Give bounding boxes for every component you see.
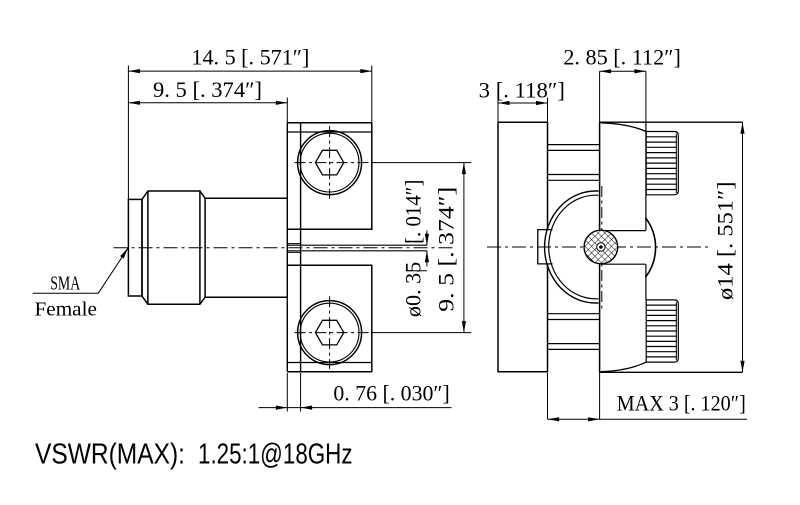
dim phi0.35 arrow line: [426, 231, 428, 267]
nut top edge: [600, 121, 743, 123]
svg-text:VSWR(MAX):: VSWR(MAX):: [35, 439, 185, 471]
dim MAX 3 line: [548, 418, 747, 420]
arrows dim 14.5: [128, 69, 140, 73]
center contact clear middle: [597, 243, 605, 251]
wire: horizontal center line, right view: [487, 246, 711, 248]
insulator nub: [538, 230, 553, 264]
svg-text:9. 5 [. 374″]: 9. 5 [. 374″]: [153, 77, 262, 102]
svg-text:MAX 3 [. 120″]: MAX 3 [. 120″]: [617, 390, 746, 415]
arrow SMA leader: [120, 247, 130, 259]
arrows dim 2.85: [600, 69, 612, 73]
screw S2 vertical center line: [329, 296, 331, 369]
dim 9.5 right extension: [286, 98, 288, 123]
big flange arc outer: [545, 191, 599, 303]
dim 14.5 extension lines: [128, 66, 371, 200]
screw S1 vertical center line: [329, 126, 331, 199]
svg-text:1.25:1@18GHz: 1.25:1@18GHz: [198, 439, 353, 471]
center contact hatched circle: [584, 230, 618, 264]
dim 0.76 line: [259, 407, 452, 409]
svg-text:14. 5 [. 571″]: 14. 5 [. 571″]: [191, 45, 309, 70]
dim 3 line: [498, 102, 548, 104]
dim 2.85 line: [600, 70, 646, 72]
arrows dim 9.5: [128, 101, 140, 105]
screw S1 inner circle: [300, 133, 359, 192]
dim phi0.35 elbow: [406, 270, 427, 272]
arrows dim phi14: [740, 122, 744, 134]
screw S2 horizontal center line: [295, 332, 372, 334]
screw S1 hex socket: [315, 150, 343, 175]
screw S1 horizontal center line: [295, 162, 372, 164]
pin slot lines in plate gap: [287, 244, 300, 253]
screw S2 outer circle: [298, 301, 362, 365]
coupling nut face line: [599, 122, 601, 372]
svg-text:3 [. 118″]: 3 [. 118″]: [479, 77, 565, 102]
arrows dim phi0.35: [425, 234, 429, 246]
svg-text:ø14 [. 551″]: ø14 [. 551″]: [713, 182, 738, 301]
2.85 right extension line: [645, 71, 647, 122]
svg-text:ø0. 35: ø0. 35: [401, 262, 426, 317]
rear boss arc: [645, 218, 655, 278]
knurled nut bottom section: [646, 300, 678, 362]
SMA connector front rim: [128, 199, 142, 296]
screw S2 inner circle: [300, 303, 359, 362]
nut top shoulder curve: [601, 123, 646, 132]
nut bottom shoulder curve: [601, 362, 646, 372]
big flange arc inner: [549, 195, 599, 299]
screw S2 hex socket: [315, 320, 343, 345]
knurl left edge line: [645, 122, 647, 300]
vertical center line, right view: [601, 186, 603, 310]
screw S1 outer circle: [298, 131, 362, 195]
top block plate strip line: [287, 131, 372, 133]
leader line SMA Female: [33, 248, 129, 294]
hex coupling nut (side view with chamfers): [142, 191, 205, 304]
hex nut chamfer edge lines: [148, 191, 200, 304]
center pin (two thin lines): [287, 245, 427, 251]
bottom block plate strip line: [287, 362, 372, 364]
arrows dim 3: [498, 101, 510, 105]
nut bottom edge: [600, 371, 743, 373]
svg-text:9. 5 [. 374″]: 9. 5 [. 374″]: [434, 187, 459, 312]
knurled nut top section: [646, 132, 678, 195]
dim phi14 line: [742, 122, 744, 372]
svg-text:2. 85 [. 112″]: 2. 85 [. 112″]: [563, 45, 681, 70]
flange plate side view: [498, 122, 548, 372]
nut face extension up (2.85) and down (MAX 3): [599, 71, 601, 419]
svg-text:Female: Female: [35, 300, 97, 321]
arrows dim MAX 3: [548, 417, 560, 421]
svg-text:[. 014″]: [. 014″]: [401, 180, 426, 244]
flange plate (front and back faces): [287, 123, 300, 372]
arrows dim 9.5 vertical: [462, 163, 466, 175]
dim 9.5 vertical: extension lines from screw centers: [372, 163, 471, 333]
wire: main horizontal center line, left view: [114, 247, 456, 249]
flange top block: [287, 123, 372, 230]
dim 9.5 line: [128, 102, 287, 104]
flange bottom block: [287, 265, 372, 372]
center dot: [599, 245, 603, 249]
svg-text:SMA: SMA: [50, 274, 80, 295]
dim 3 extension lines: [498, 98, 548, 123]
dim 0.76 extension lines: [287, 373, 300, 412]
arrows dim 0.76: [276, 406, 288, 410]
rear boss lines: [601, 231, 646, 265]
body bars between flange and nut: [548, 145, 600, 181]
dim 14.5 line: [128, 70, 371, 72]
dim MAX 3 extension line: [547, 373, 549, 419]
connector barrel: [205, 198, 287, 297]
svg-text:0. 76 [. 030″]: 0. 76 [. 030″]: [333, 380, 449, 405]
dim 9.5 vertical line: [463, 163, 465, 333]
